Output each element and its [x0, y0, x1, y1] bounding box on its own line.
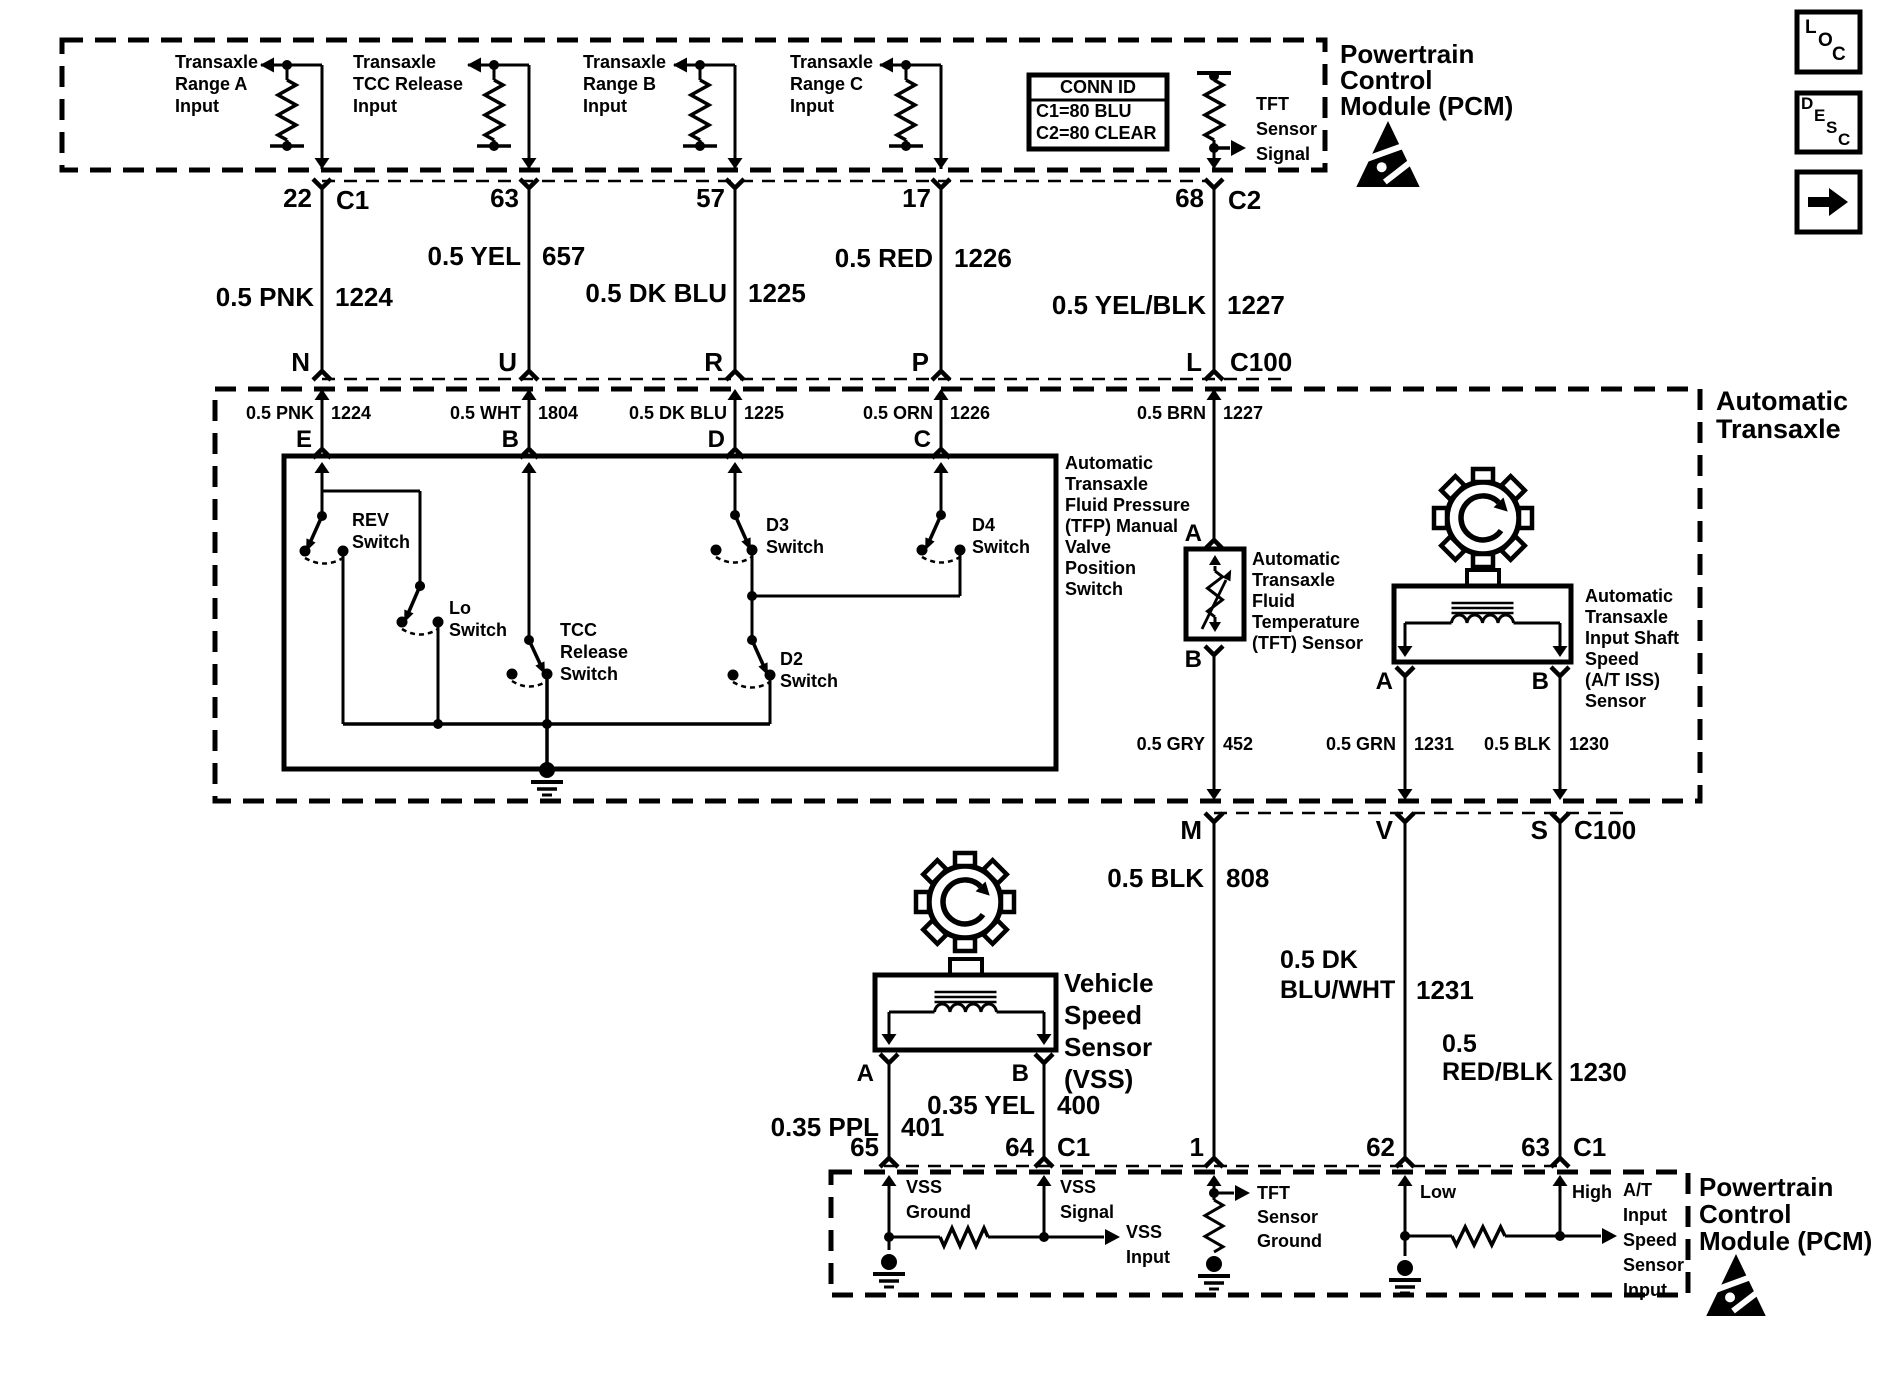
arrow into transaxle at B — [522, 389, 537, 449]
svg-text:P: P — [912, 347, 929, 377]
terminal fork B VSS — [1035, 1054, 1053, 1063]
label: 0.5 GRY 452 — [1137, 734, 1253, 754]
svg-text:Input: Input — [1623, 1205, 1667, 1225]
svg-text:A: A — [1376, 668, 1393, 695]
label: 0.5 ORN 1226 (transaxle) — [863, 403, 990, 423]
svg-text:Switch: Switch — [780, 671, 838, 691]
svg-text:0.5 YEL/BLK: 0.5 YEL/BLK — [1052, 290, 1206, 320]
svg-text:A: A — [1185, 520, 1202, 547]
terminal fork at PCM pin 17 — [932, 179, 950, 188]
svg-text:TFT: TFT — [1257, 1183, 1290, 1203]
TFT sensor (thermistor) box — [1186, 549, 1244, 639]
ground: TFP switch common — [531, 762, 563, 795]
REV Switch — [300, 511, 349, 564]
wire 1226 0.5 RED from PCM to C100 — [940, 186, 943, 372]
wire V to PCM pin 62 (DK BLU/WHT 1231) — [1404, 822, 1407, 1158]
svg-text:1226: 1226 — [954, 243, 1012, 273]
svg-text:Ground: Ground — [906, 1202, 971, 1222]
svg-text:D3: D3 — [766, 515, 789, 535]
svg-text:(TFT) Sensor: (TFT) Sensor — [1252, 633, 1363, 653]
wire E into TFP switch — [315, 462, 330, 516]
svg-text:VSS: VSS — [1126, 1222, 1162, 1242]
svg-text:S: S — [1531, 815, 1548, 845]
svg-text:1804: 1804 — [538, 403, 578, 423]
ground: TFT sensor ground in PCM — [1198, 1256, 1230, 1289]
terminal fork E TFP switch — [313, 449, 331, 458]
svg-text:N: N — [291, 347, 310, 377]
svg-text:Input: Input — [175, 96, 219, 116]
svg-text:C: C — [914, 426, 931, 453]
svg-text:657: 657 — [542, 241, 585, 271]
label: TFT Sensor Ground — [1257, 1183, 1322, 1251]
wire ISS A to C100 (GRN) — [1398, 676, 1413, 800]
label: 0.5 BLK 1230 — [1484, 734, 1609, 754]
label: Automatic Transaxle Fluid Pressure (TFP) Manual Valve Position Switch — [1065, 453, 1190, 599]
terminal fork A VSS — [880, 1054, 898, 1063]
label: Transaxle TCC Release Input — [353, 52, 463, 116]
A/T ISS High input wire — [1553, 1175, 1568, 1241]
arrow into transaxle at D — [728, 389, 743, 449]
terminal fork M at C100 bottom — [1205, 813, 1223, 822]
svg-text:Sensor: Sensor — [1064, 1032, 1152, 1062]
connector line C1/C2 (thin dashed) — [322, 180, 1205, 183]
D3 Switch — [711, 510, 758, 563]
label: Automatic Transaxle (header) — [1716, 386, 1848, 444]
svg-text:0.5 ORN: 0.5 ORN — [863, 403, 933, 423]
ESD sensitivity symbol (top) — [1356, 121, 1419, 187]
wire 657 0.5 YEL from PCM to C100 — [528, 186, 531, 372]
svg-text:0.5 GRN: 0.5 GRN — [1326, 734, 1396, 754]
svg-text:Transaxle: Transaxle — [353, 52, 436, 72]
wire S to PCM pin 63 (RED/BLK 1230) — [1559, 822, 1562, 1158]
svg-text:B: B — [502, 426, 519, 453]
connector line C100 (thin dashed, bottom) — [1214, 812, 1632, 815]
label: 0.5 PNK 1224 (transaxle) — [246, 403, 371, 423]
svg-text:1: 1 — [1190, 1132, 1204, 1162]
svg-text:68: 68 — [1175, 183, 1204, 213]
wire D into TFP switch — [728, 462, 743, 515]
svg-text:808: 808 — [1226, 863, 1269, 893]
svg-text:0.5 BRN: 0.5 BRN — [1137, 403, 1206, 423]
svg-text:0.5 DK: 0.5 DK — [1280, 946, 1358, 974]
svg-text:TFT: TFT — [1256, 94, 1289, 114]
svg-text:E: E — [1814, 106, 1825, 125]
DESC reference box — [1797, 93, 1860, 152]
terminal fork at PCM pin 63 — [520, 179, 538, 188]
svg-text:Transaxle: Transaxle — [175, 52, 258, 72]
svg-text:Switch: Switch — [352, 532, 410, 552]
label: Powertrain Control Module (PCM) bottom-right — [1699, 1172, 1872, 1256]
svg-text:Input Shaft: Input Shaft — [1585, 628, 1679, 648]
svg-text:Signal: Signal — [1256, 144, 1310, 164]
svg-text:1230: 1230 — [1569, 734, 1609, 754]
svg-text:0.5 BLK: 0.5 BLK — [1484, 734, 1551, 754]
svg-text:VSS: VSS — [906, 1177, 942, 1197]
svg-text:M: M — [1180, 815, 1202, 845]
terminal fork V at C100 bottom — [1396, 813, 1414, 822]
svg-text:Transaxle: Transaxle — [790, 52, 873, 72]
TFP switch common bus wire — [343, 719, 770, 729]
svg-text:0.5: 0.5 — [1442, 1030, 1477, 1058]
svg-text:Release: Release — [560, 642, 628, 662]
svg-text:Fluid: Fluid — [1252, 591, 1295, 611]
svg-text:Position: Position — [1065, 558, 1136, 578]
ground: A/T ISS low in PCM — [1389, 1260, 1421, 1293]
svg-text:Module (PCM): Module (PCM) — [1699, 1226, 1872, 1256]
Automatic Transaxle dashed box — [215, 389, 1700, 801]
arrow into transaxle (BRN wire) — [1207, 389, 1222, 540]
svg-text:S: S — [1826, 118, 1837, 137]
svg-text:CONN ID: CONN ID — [1060, 77, 1136, 97]
svg-text:Input: Input — [353, 96, 397, 116]
terminal fork PCM pin 64 — [1035, 1158, 1053, 1167]
terminal fork B TFP switch — [520, 449, 538, 458]
terminal fork U at C100 — [520, 371, 538, 380]
svg-text:High: High — [1572, 1182, 1612, 1202]
wire 1224 0.5 PNK from PCM to C100 — [321, 186, 324, 372]
svg-text:Input: Input — [790, 96, 834, 116]
svg-text:VSS: VSS — [1060, 1177, 1096, 1197]
terminal fork A ISS — [1396, 667, 1414, 676]
svg-text:(A/T ISS): (A/T ISS) — [1585, 670, 1660, 690]
svg-text:D4: D4 — [972, 515, 995, 535]
arrow into transaxle at C — [934, 389, 949, 449]
label: 0.5 BLK 808 — [1107, 863, 1269, 893]
svg-text:22: 22 — [283, 183, 312, 213]
TFT sensor ground arrow — [1214, 1185, 1250, 1201]
wire B into TFP switch — [522, 462, 537, 640]
svg-text:0.5 RED: 0.5 RED — [835, 243, 933, 273]
svg-text:B: B — [1185, 646, 1202, 673]
terminal fork A TFT — [1205, 540, 1223, 549]
wire inside PCM down to connector (x=941) — [934, 65, 949, 169]
svg-text:C2=80 CLEAR: C2=80 CLEAR — [1036, 123, 1157, 143]
svg-text:Powertrain: Powertrain — [1699, 1172, 1833, 1202]
wire inside PCM down to connector (x=735) — [728, 65, 743, 169]
svg-text:Range A: Range A — [175, 74, 247, 94]
svg-text:Input: Input — [583, 96, 627, 116]
wire D2 output to bus — [769, 675, 772, 724]
next-page arrow box — [1797, 172, 1860, 232]
label: Powertrain Control Module (PCM) top-right — [1340, 39, 1513, 121]
svg-text:A/T: A/T — [1623, 1180, 1652, 1200]
svg-text:Switch: Switch — [449, 620, 507, 640]
svg-text:Module (PCM): Module (PCM) — [1340, 91, 1513, 121]
svg-text:1227: 1227 — [1223, 403, 1263, 423]
label: 0.5 YEL/BLK 1227 — [1052, 290, 1285, 320]
resistor: TFT Sensor Signal pull-up — [1197, 71, 1246, 169]
svg-text:(TFP) Manual: (TFP) Manual — [1065, 516, 1178, 536]
svg-text:Speed: Speed — [1064, 1000, 1142, 1030]
resistor: VSS input termination — [889, 1228, 1044, 1246]
svg-text:Ground: Ground — [1257, 1231, 1322, 1251]
D4 Switch — [917, 510, 966, 563]
resistor network: Transaxle Range B Input — [673, 58, 735, 152]
svg-text:Speed: Speed — [1585, 649, 1639, 669]
label: 0.5 RED/BLK 1230 — [1442, 1030, 1627, 1087]
svg-text:Vehicle: Vehicle — [1064, 968, 1154, 998]
label: 0.5 RED 1226 — [835, 243, 1012, 273]
wire C into TFP switch — [934, 462, 949, 515]
svg-text:1226: 1226 — [950, 403, 990, 423]
label: Lo Switch — [449, 598, 507, 640]
label: TCC Release Switch — [560, 620, 628, 684]
label: Vehicle Speed Sensor (VSS) — [1064, 968, 1154, 1094]
CONN ID table box — [1029, 75, 1167, 149]
label: D4 Switch — [972, 515, 1030, 557]
TCC Release Switch — [507, 635, 553, 687]
svg-text:C2: C2 — [1228, 185, 1261, 215]
label: 0.5 BRN 1227 (transaxle) — [1137, 403, 1263, 423]
svg-text:1231: 1231 — [1414, 734, 1454, 754]
VSS Input signal arrow — [1044, 1229, 1120, 1245]
wire 1227 0.5 YEL/BLK from PCM to C100 — [1213, 186, 1216, 372]
connector line C1 (thin dashed, bottom) — [884, 1165, 1563, 1168]
svg-text:Transaxle: Transaxle — [1252, 570, 1335, 590]
svg-text:400: 400 — [1057, 1090, 1100, 1120]
ESD sensitivity symbol (bottom) — [1706, 1254, 1766, 1316]
label: 0.5 DK BLU/WHT 1231 — [1280, 946, 1474, 1005]
svg-text:C100: C100 — [1230, 347, 1292, 377]
terminal fork at PCM pin 57 — [726, 179, 744, 188]
svg-text:Automatic: Automatic — [1585, 586, 1673, 606]
svg-text:0.5 PNK: 0.5 PNK — [216, 282, 314, 312]
Powertrain Control Module (PCM) dashed box (top) — [62, 40, 1325, 170]
svg-text:Lo: Lo — [449, 598, 471, 618]
svg-text:Range B: Range B — [583, 74, 656, 94]
svg-text:63: 63 — [1521, 1132, 1550, 1162]
svg-text:Switch: Switch — [766, 537, 824, 557]
svg-text:64: 64 — [1005, 1132, 1034, 1162]
label: VSS Signal — [1060, 1177, 1114, 1222]
wire ISS B to C100 (BLK) — [1553, 676, 1568, 800]
svg-text:Switch: Switch — [1065, 579, 1123, 599]
svg-text:Signal: Signal — [1060, 1202, 1114, 1222]
svg-text:0.5 DK BLU: 0.5 DK BLU — [585, 278, 727, 308]
ground: VSS ground in PCM — [873, 1254, 905, 1287]
label: Transaxle Range A Input — [175, 52, 258, 116]
terminal fork C TFP switch — [932, 449, 950, 458]
label: TFT Sensor Signal — [1256, 94, 1317, 164]
svg-text:L: L — [1186, 347, 1202, 377]
terminal fork N at C100 — [313, 371, 331, 380]
svg-text:1225: 1225 — [748, 278, 806, 308]
label: D3 Switch — [766, 515, 824, 557]
svg-text:62: 62 — [1366, 1132, 1395, 1162]
svg-text:R: R — [704, 347, 723, 377]
svg-text:1224: 1224 — [335, 282, 393, 312]
svg-text:1230: 1230 — [1569, 1057, 1627, 1087]
svg-text:Transaxle: Transaxle — [583, 52, 666, 72]
svg-text:Automatic: Automatic — [1252, 549, 1340, 569]
svg-text:Switch: Switch — [972, 537, 1030, 557]
terminal fork PCM pin 63 — [1551, 1158, 1569, 1167]
svg-text:C1=80 BLU: C1=80 BLU — [1036, 101, 1132, 121]
connector line C100 (thin dashed, top) — [322, 378, 1290, 381]
resistor network: Transaxle TCC Release Input — [467, 58, 529, 152]
svg-text:1224: 1224 — [331, 403, 371, 423]
Lo Switch — [397, 581, 444, 635]
svg-text:0.5 WHT: 0.5 WHT — [450, 403, 521, 423]
svg-text:0.5 PNK: 0.5 PNK — [246, 403, 314, 423]
label: 0.5 YEL 657 — [428, 241, 586, 271]
label: Transaxle Range C Input — [790, 52, 873, 116]
svg-text:57: 57 — [696, 183, 725, 213]
A/T ISS Low input wire — [1398, 1175, 1413, 1256]
terminal fork R at C100 — [726, 371, 744, 380]
terminal fork P at C100 — [932, 371, 950, 380]
label: A/T Input Speed Sensor Input — [1623, 1180, 1684, 1300]
label: VSS Ground — [906, 1177, 971, 1222]
svg-text:C1: C1 — [1573, 1132, 1606, 1162]
svg-text:Automatic: Automatic — [1716, 386, 1848, 416]
terminal fork L at C100 — [1205, 371, 1223, 380]
label: 0.5 GRN 1231 — [1326, 734, 1454, 754]
label: 0.35 PPL 401 — [771, 1112, 945, 1142]
svg-text:O: O — [1818, 30, 1833, 51]
wire REV output to bus — [342, 551, 345, 724]
svg-text:1225: 1225 — [744, 403, 784, 423]
label: D2 Switch — [780, 649, 838, 691]
label: Transaxle Range B Input — [583, 52, 666, 116]
wire VSS A to PCM pin 65 (PPL 401) — [888, 1063, 891, 1158]
wire M to PCM pin 1 (BLK 808) — [1213, 822, 1216, 1158]
resistor network: Transaxle Range A Input — [260, 58, 322, 152]
label: Automatic Transaxle Fluid Temperature (TFT) Sensor — [1252, 549, 1363, 653]
wire D4 output to D3/D2 node — [752, 550, 960, 596]
svg-text:E: E — [296, 426, 312, 453]
svg-text:Low: Low — [1420, 1182, 1457, 1202]
terminal fork PCM pin 65 — [880, 1158, 898, 1167]
svg-text:17: 17 — [902, 183, 931, 213]
svg-text:Input: Input — [1126, 1247, 1170, 1267]
label: 0.35 YEL 400 — [927, 1090, 1100, 1120]
svg-text:BLU/WHT: BLU/WHT — [1280, 976, 1395, 1004]
label: 0.5 DK BLU 1225 — [585, 278, 805, 308]
svg-text:1227: 1227 — [1227, 290, 1285, 320]
svg-text:1231: 1231 — [1416, 975, 1474, 1005]
wire D3 output down to D2 — [747, 550, 757, 640]
svg-text:Sensor: Sensor — [1257, 1207, 1318, 1227]
svg-text:C: C — [1832, 44, 1846, 65]
terminal fork B TFT — [1205, 646, 1223, 655]
A/T ISS sensor pickup — [1394, 570, 1571, 662]
svg-text:65: 65 — [850, 1132, 879, 1162]
label: 0.5 WHT 1804 (transaxle) — [450, 403, 578, 423]
svg-text:D: D — [708, 426, 725, 453]
wire TCC output to ground — [545, 674, 549, 769]
svg-text:C1: C1 — [336, 185, 369, 215]
svg-text:C: C — [1838, 130, 1850, 149]
resistor: TFT sensor ground — [1205, 1200, 1223, 1252]
svg-text:0.5 GRY: 0.5 GRY — [1137, 734, 1205, 754]
svg-text:V: V — [1376, 815, 1394, 845]
svg-text:TCC: TCC — [560, 620, 597, 640]
svg-text:Sensor: Sensor — [1585, 691, 1646, 711]
svg-text:Transaxle: Transaxle — [1716, 414, 1841, 444]
svg-text:0.5 DK BLU: 0.5 DK BLU — [629, 403, 727, 423]
wire VSS B to PCM pin 64 (YEL 400) — [1043, 1063, 1046, 1158]
svg-text:REV: REV — [352, 510, 389, 530]
svg-text:TCC Release: TCC Release — [353, 74, 463, 94]
svg-text:A: A — [857, 1060, 874, 1087]
terminal fork S at C100 bottom — [1551, 813, 1569, 822]
svg-text:Input: Input — [1623, 1280, 1667, 1300]
TFP switch outline box — [284, 456, 1056, 769]
label: REV Switch — [352, 510, 410, 552]
svg-text:Transaxle: Transaxle — [1585, 607, 1668, 627]
svg-text:L: L — [1805, 17, 1817, 38]
wire Lo output to bus — [437, 622, 440, 724]
svg-text:D2: D2 — [780, 649, 803, 669]
resistor network: Transaxle Range C Input — [879, 58, 941, 152]
terminal fork at PCM pin 22 — [313, 179, 331, 188]
svg-text:Range C: Range C — [790, 74, 863, 94]
svg-text:0.5 BLK: 0.5 BLK — [1107, 863, 1204, 893]
svg-text:63: 63 — [490, 183, 519, 213]
svg-text:Temperature: Temperature — [1252, 612, 1360, 632]
svg-text:B: B — [1012, 1060, 1029, 1087]
wire TFT B to C100 (GRY) — [1207, 655, 1222, 800]
Vehicle Speed Sensor pickup — [875, 959, 1056, 1050]
svg-text:RED/BLK: RED/BLK — [1442, 1058, 1553, 1086]
reluctor gear icon (A/T ISS) — [1434, 469, 1532, 567]
arrow into transaxle at E — [315, 389, 330, 449]
svg-text:C100: C100 — [1574, 815, 1636, 845]
A/T Input Speed Sensor Input arrow — [1560, 1228, 1617, 1244]
svg-text:Speed: Speed — [1623, 1230, 1677, 1250]
svg-text:Valve: Valve — [1065, 537, 1111, 557]
terminal fork at PCM pin 68 — [1205, 179, 1223, 188]
terminal fork PCM pin 1 — [1205, 1158, 1223, 1167]
Powertrain Control Module (PCM) dashed box (bottom) — [831, 1172, 1688, 1295]
terminal fork B ISS — [1551, 667, 1569, 676]
terminal fork D TFP switch — [726, 449, 744, 458]
label: Automatic Transaxle Input Shaft Speed (A/T ISS) Sensor — [1585, 586, 1679, 711]
svg-text:Automatic: Automatic — [1065, 453, 1153, 473]
svg-text:Fluid Pressure: Fluid Pressure — [1065, 495, 1190, 515]
svg-text:Switch: Switch — [560, 664, 618, 684]
D2 Switch — [728, 635, 776, 688]
reluctor gear icon (VSS) — [916, 853, 1014, 951]
svg-text:Sensor: Sensor — [1256, 119, 1317, 139]
VSS Ground input wire — [882, 1175, 897, 1250]
svg-text:C1: C1 — [1057, 1132, 1090, 1162]
label: VSS Input — [1126, 1222, 1170, 1267]
svg-text:Sensor: Sensor — [1623, 1255, 1684, 1275]
TFT sensor ground wire — [1207, 1175, 1222, 1200]
VSS Signal input wire — [1037, 1175, 1052, 1242]
svg-text:401: 401 — [901, 1112, 944, 1142]
terminal fork PCM pin 62 — [1396, 1158, 1414, 1167]
wire inside PCM down to connector (x=322) — [315, 65, 330, 169]
resistor: A/T ISS input termination — [1405, 1227, 1560, 1245]
svg-text:D: D — [1801, 94, 1813, 113]
label: 0.5 DK BLU 1225 (transaxle) — [629, 403, 784, 423]
wire 1225 0.5 DK BLU from PCM to C100 — [734, 186, 737, 372]
svg-text:Control: Control — [1699, 1199, 1791, 1229]
label: 0.5 PNK 1224 — [216, 282, 394, 312]
LOC reference box — [1797, 12, 1860, 72]
svg-text:Transaxle: Transaxle — [1065, 474, 1148, 494]
svg-text:B: B — [1532, 668, 1549, 695]
svg-text:452: 452 — [1223, 734, 1253, 754]
svg-text:U: U — [498, 347, 517, 377]
svg-text:0.5 YEL: 0.5 YEL — [428, 241, 522, 271]
branch wire to Lo switch — [322, 491, 420, 586]
wire inside PCM down to connector (x=529) — [522, 65, 537, 169]
